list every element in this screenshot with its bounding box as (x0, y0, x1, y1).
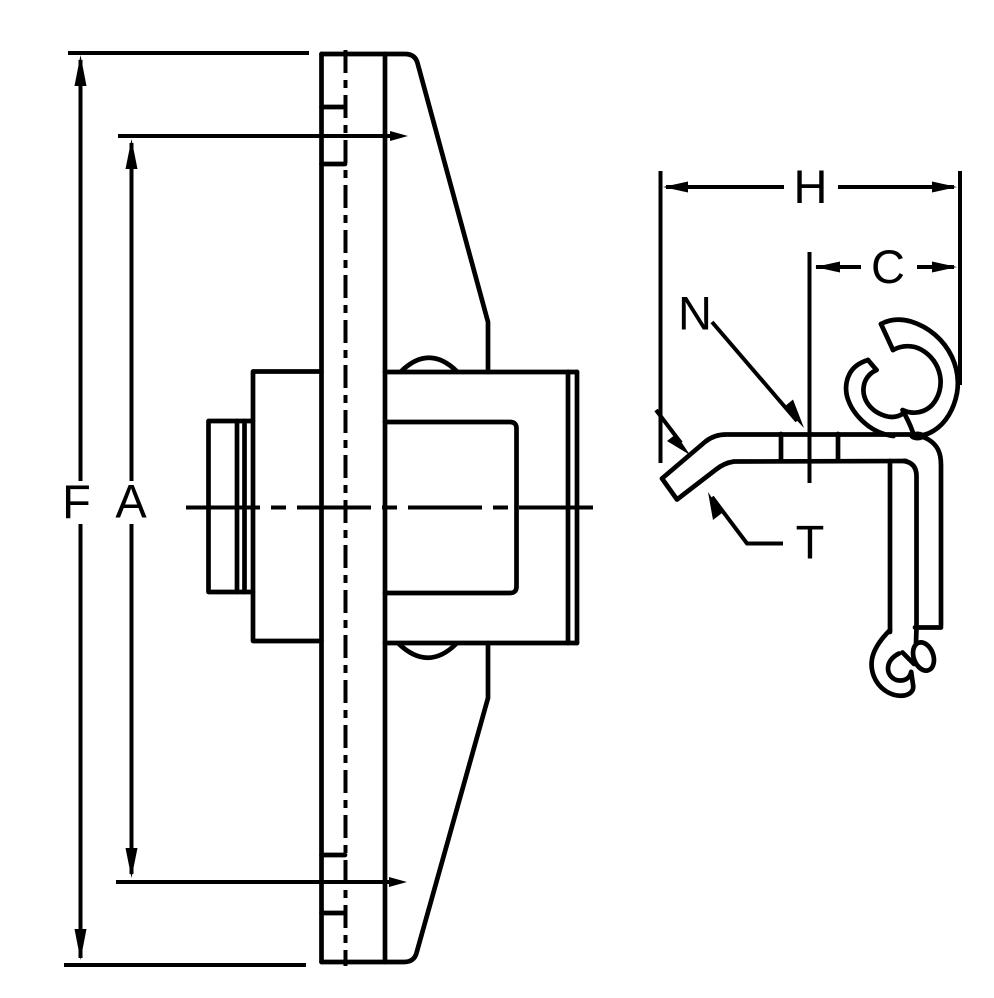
curl landing junction blob (910, 432, 926, 441)
bottom curl inner sweep (888, 654, 911, 681)
F bottom arrowhead (75, 929, 87, 960)
top curl big C outer arc (881, 320, 958, 436)
svg-text:H: H (794, 160, 828, 213)
bottom curl crossover blob (903, 653, 915, 665)
F top arrowhead (75, 55, 87, 86)
top slot lower line (322, 162, 346, 167)
A bottom extension line with arrow (116, 880, 398, 884)
T lower arrowhead (708, 492, 722, 520)
N leader line (712, 322, 797, 421)
H left arrowhead (663, 182, 688, 193)
svg-text:A: A (115, 475, 147, 528)
bottom curl tip neck (914, 628, 919, 644)
svg-text:N: N (678, 287, 712, 340)
bottom curl tip loop (909, 639, 937, 673)
arm outline with bent left end (662, 435, 920, 500)
A bottom arrowhead (126, 848, 138, 878)
H right arrowhead (932, 182, 957, 193)
horizontal centerline (186, 506, 598, 510)
hub bottom line (385, 641, 577, 646)
plate dashed centerline (344, 50, 348, 966)
C dimension line left part (816, 265, 861, 269)
plate bottom edge + web bottom diagonal (322, 643, 489, 962)
hub top line (385, 370, 577, 375)
small block inner line 2 (242, 421, 247, 592)
top bump arc (401, 358, 457, 372)
small block inner line 1 (235, 421, 240, 592)
svg-text:C: C (871, 240, 905, 293)
A top arrowhead (126, 139, 138, 169)
H dimension line left part (666, 185, 784, 189)
H dimension line right part (838, 185, 954, 189)
small block left of plate (209, 421, 254, 592)
hub right inner edge (566, 372, 571, 643)
A dimension line lower (130, 524, 134, 874)
A dimension line upper (130, 143, 134, 481)
leg squared end (915, 625, 941, 630)
bottom bump arc (399, 644, 456, 658)
T upper arrow shaft (656, 410, 681, 443)
hub right outer edge (575, 372, 580, 643)
corner into leg right edge (916, 435, 941, 626)
bottom slot lower line (322, 911, 346, 916)
plate left edge (319, 54, 324, 962)
svg-text:F: F (62, 475, 91, 528)
C left extension line (808, 252, 812, 483)
T leader (712, 497, 783, 544)
top curl small C end face (868, 360, 877, 370)
A top extension line with arrow (118, 134, 399, 138)
leg left edge (888, 461, 893, 632)
panel tick right (836, 434, 841, 461)
H left extension line (659, 171, 663, 463)
panel tick left (779, 434, 784, 461)
top slot upper line (322, 105, 346, 110)
top curl small C inner arc (863, 370, 903, 417)
bottom slot upper line (322, 853, 346, 858)
C left arrowhead (815, 262, 840, 273)
N arrowhead (784, 400, 804, 429)
H right extension line (958, 171, 962, 385)
F bottom extension line (64, 963, 306, 967)
T upper arrowhead (667, 434, 690, 455)
inner rectangle (385, 422, 517, 593)
C right arrowhead (932, 262, 957, 273)
top curl big C end face (881, 324, 893, 350)
C dimension line right part (917, 265, 954, 269)
svg-text:T: T (796, 516, 825, 569)
leg inner edge with corner (904, 461, 917, 627)
F dimension line upper (79, 60, 83, 481)
top curl big C inner arc (893, 346, 941, 434)
top curl small C outer arc (846, 360, 893, 436)
F dimension line lower (79, 524, 83, 958)
bottom curl outer sweep (872, 630, 914, 696)
plate right edge (383, 54, 388, 962)
plate top edge + web top diagonal (322, 54, 489, 372)
big block left of plate (253, 372, 322, 642)
F top extension line (68, 51, 309, 55)
